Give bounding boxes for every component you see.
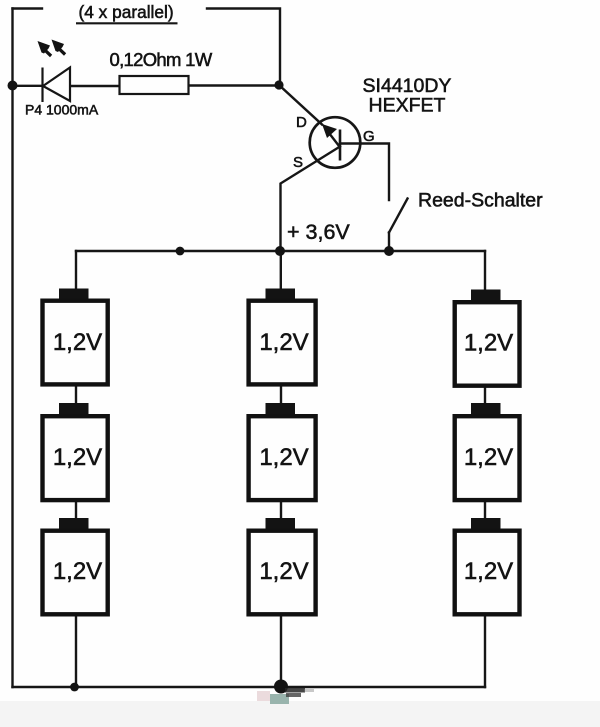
scan artifact: colored smudge at bottom junction [257,688,314,704]
transistor Q1 channel bar [339,130,342,161]
LED D1 symbol [43,68,71,103]
wire: left col cell1-cell2 link [75,386,77,404]
resistor R1 0,12 Ohm [120,76,189,94]
node: bottom rail dot left column [70,683,79,692]
svg-text:D: D [296,114,307,131]
wire: LED to resistor [70,85,118,87]
wire: reed switch lower stub [388,233,390,252]
battery cell B8 1,2V [455,403,520,500]
node: rail dot reed switch [384,246,394,256]
wire: left col cell2-cell3 link [75,502,77,519]
wire: +3.6V rail [76,250,485,252]
wire: top-right segment to corner [207,9,280,85]
svg-text:1,2V: 1,2V [53,444,102,471]
transistor Q1 drain arrow [322,124,339,146]
node: bottom rail dot middle column [274,680,288,694]
battery cell B5 1,2V [249,403,316,500]
wire: left vertical bus [11,9,13,688]
wire: rail to right column [484,251,486,289]
svg-text:Reed-Schalter: Reed-Schalter [418,190,543,212]
svg-text:P4 1000mA: P4 1000mA [25,102,99,118]
svg-text:1,2V: 1,2V [53,329,102,356]
wire: mid col cell1-cell2 link [280,386,282,404]
battery cell B9 1,2V [455,518,520,614]
svg-text:1,2V: 1,2V [53,558,102,585]
reed switch blade [389,199,408,233]
wire: rail to left column [75,251,77,289]
battery cell B3 1,2V [43,518,108,614]
transistor Q1 body circle [310,117,361,168]
battery cell B7 1,2V [455,290,520,386]
svg-text:(4 x parallel): (4 x parallel) [79,2,174,22]
battery cell B1 1,2V [43,289,108,385]
svg-text:1,2V: 1,2V [259,329,308,356]
underline of (4 x parallel) [76,22,178,24]
wire: gate horizontal and down [340,144,389,201]
svg-text:HEXFET: HEXFET [369,95,446,117]
svg-text:G: G [363,128,375,145]
svg-text:1,2V: 1,2V [259,444,308,471]
wire: top-left segment [13,7,43,9]
svg-text:1,2V: 1,2V [464,330,513,357]
node: rail dot 1 [176,247,185,256]
wire: drain diagonal from node A [279,85,322,125]
wire: bottom return rail [13,686,486,688]
wire: right col cell2-cell3 link [484,502,486,519]
wire: left col bottom drop [75,616,77,687]
battery cell B2 1,2V [43,403,108,500]
svg-text:1,2V: 1,2V [464,558,513,585]
svg-text:+ 3,6V: + 3,6V [287,220,350,244]
LED light arrow 2 [52,40,67,56]
wire: right col bottom drop [484,616,486,687]
LED light arrow 1 [38,41,53,57]
wire: source diagonal and down to +3.6V rail [281,147,341,252]
svg-text:1,2V: 1,2V [259,558,308,585]
wire: right col cell1-cell2 link [484,386,486,404]
wire: mid col cell2-cell3 link [280,502,282,519]
svg-text:S: S [293,154,303,171]
wire: LED anode from left bus [13,85,42,87]
wire: rail to middle column [280,251,282,289]
svg-text:0,12Ohm 1W: 0,12Ohm 1W [110,49,213,70]
svg-text:1,2V: 1,2V [464,444,513,471]
wire: mid col bottom drop [280,616,282,687]
battery cell B4 1,2V [249,289,316,385]
bottom gray strip [0,701,600,727]
node: rail dot middle column [275,246,285,256]
battery cell B6 1,2V [249,518,316,614]
node: LED left bus junction dot [8,81,18,91]
wire: resistor to node A [190,84,279,86]
node A junction dot [274,80,283,89]
